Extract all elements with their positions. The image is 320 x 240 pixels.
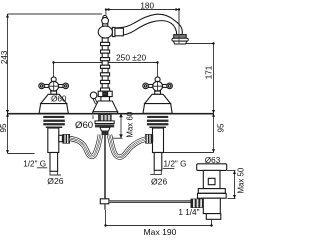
svg-text:1/2" G: 1/2" G bbox=[23, 160, 46, 169]
spout arm bbox=[115, 28, 124, 36]
svg-text:180: 180 bbox=[140, 1, 154, 10]
dimension Max50 bottom extension bbox=[228, 198, 236, 200]
dimension arrows bbox=[6, 8, 236, 227]
drain inlet nut bbox=[191, 199, 204, 208]
drain locknut 2 bbox=[198, 193, 227, 198]
right valve right knob inner bbox=[168, 85, 171, 88]
central manifold bbox=[100, 127, 110, 131]
dimension Max50 vertical line bbox=[234, 170, 236, 198]
drain neck square bbox=[208, 178, 215, 184]
left valve below-deck body bbox=[48, 128, 59, 153]
pop-up rod pin bbox=[104, 204, 105, 210]
central threaded shank bbox=[98, 115, 112, 121]
left hose bbox=[70, 135, 101, 157]
left valve left knob bbox=[39, 83, 45, 89]
column lower neck bbox=[101, 97, 110, 101]
left valve right knob bbox=[63, 83, 69, 89]
right valve handle bar bbox=[146, 85, 170, 88]
svg-text:95: 95 bbox=[216, 123, 225, 133]
pop-up rod block bbox=[100, 199, 109, 204]
right hose bbox=[110, 135, 146, 157]
column block screw bbox=[103, 92, 108, 95]
dimension texts bbox=[0, 1, 246, 237]
right valve bell bbox=[145, 94, 171, 103]
column ball bbox=[102, 17, 109, 24]
right valve side stub bbox=[149, 135, 153, 141]
column shaft segment 1 bbox=[102, 38, 108, 42]
left valve top knob bbox=[51, 77, 56, 82]
central washer 1 bbox=[95, 121, 114, 124]
svg-text:Ø60: Ø60 bbox=[75, 120, 93, 131]
svg-text:Max 190: Max 190 bbox=[144, 227, 177, 237]
svg-text:Ø26: Ø26 bbox=[151, 177, 167, 187]
left valve neck bbox=[51, 91, 57, 94]
dimension 171 top extension line bbox=[180, 43, 214, 45]
dimension 95 left vertical line bbox=[7, 113, 9, 153]
dimension Max50 top extension bbox=[227, 170, 236, 172]
dimension 180 line bbox=[106, 9, 179, 11]
dimension 171 vertical line bbox=[213, 44, 215, 114]
left valve skirt bbox=[39, 104, 68, 114]
right valve left knob bbox=[143, 83, 149, 89]
column cone base bbox=[93, 101, 118, 112]
column body sphere bbox=[98, 26, 112, 38]
dimension 180 right extension over spout bbox=[178, 10, 180, 44]
right valve skirt bbox=[143, 104, 172, 114]
right valve top knob bbox=[155, 77, 160, 82]
left valve bell bbox=[41, 94, 67, 103]
right valve hub bbox=[153, 81, 163, 91]
dimension Max190 horizontal line bbox=[106, 225, 212, 227]
spout tube bbox=[114, 14, 182, 35]
pop-up knob bbox=[90, 92, 97, 99]
dimension 95 right vertical line bbox=[213, 113, 215, 152]
right valve hose nut bbox=[145, 134, 153, 144]
dimension 250 right drop bbox=[157, 63, 159, 79]
column base plate bbox=[93, 112, 118, 114]
spout outlet rim bbox=[172, 38, 188, 41]
drain body bbox=[203, 198, 220, 213]
svg-text:171: 171 bbox=[204, 65, 213, 79]
dimension Max190 left extension bbox=[105, 210, 107, 226]
leader line half inch G right bbox=[163, 168, 175, 170]
pop-up knob link bbox=[93, 98, 98, 104]
right valve below-deck body bbox=[153, 128, 164, 153]
column block bbox=[98, 91, 112, 96]
pop-up rod vertical bbox=[104, 135, 106, 199]
dimension Max190 right extension bbox=[211, 219, 213, 226]
right valve below-deck ridges bbox=[147, 116, 169, 128]
column finial bbox=[103, 15, 107, 17]
column neck top bbox=[103, 24, 108, 26]
left valve hub bbox=[49, 81, 59, 91]
svg-text:Max 50: Max 50 bbox=[237, 167, 246, 193]
drain neck bbox=[203, 170, 220, 188]
dimension 250 horizontal line bbox=[54, 62, 158, 64]
left valve hub cross bbox=[49, 81, 59, 91]
left valve handle bar bbox=[42, 85, 66, 88]
pop-up horizontal rod bbox=[109, 201, 191, 203]
svg-text:Ø60: Ø60 bbox=[51, 95, 67, 104]
diameter 26 bracket left bbox=[50, 172, 61, 176]
dimension 180 right extension bbox=[178, 10, 180, 45]
leader line half inch G left bbox=[37, 167, 47, 169]
left valve below-deck ridges bbox=[43, 116, 65, 128]
right valve neck bbox=[155, 91, 161, 94]
dimension 243 vertical line bbox=[7, 14, 9, 113]
central washer 2 bbox=[95, 124, 114, 127]
svg-text:Ø26: Ø26 bbox=[47, 176, 63, 186]
dimension 243 top extension line bbox=[8, 13, 103, 15]
svg-text:243: 243 bbox=[0, 50, 9, 64]
right valve right knob bbox=[167, 83, 173, 89]
left valve tailpiece bbox=[50, 153, 58, 172]
svg-text:1 1/4": 1 1/4" bbox=[178, 208, 199, 217]
dimension Max60 bottom extension bbox=[113, 137, 123, 139]
dimension 250 left drop bbox=[53, 63, 55, 78]
right valve hub cross bbox=[153, 81, 163, 91]
spout outlet collar bbox=[172, 35, 188, 44]
drain locknut 1 bbox=[198, 189, 225, 194]
drain top flange bbox=[197, 164, 227, 171]
right valve tailpiece bbox=[154, 153, 162, 171]
dimension 180 left extension bbox=[105, 10, 107, 15]
svg-text:1/2" G: 1/2" G bbox=[164, 160, 187, 169]
central manifold cap bbox=[102, 131, 109, 135]
svg-text:Ø63: Ø63 bbox=[205, 156, 221, 165]
svg-text:250 ±20: 250 ±20 bbox=[116, 53, 147, 63]
dimension Max60 vertical line bbox=[120, 113, 122, 138]
diameter 60 center tick bbox=[92, 115, 94, 119]
left valve hose nut bbox=[62, 134, 70, 144]
diameter 26 bracket right bbox=[150, 171, 161, 175]
svg-text:Max 60: Max 60 bbox=[126, 111, 135, 137]
dimension 95 right bottom extension line bbox=[162, 152, 214, 154]
spout outlet mouth bbox=[173, 41, 186, 44]
spout arm flange bbox=[112, 27, 115, 36]
left valve side stub bbox=[59, 135, 63, 141]
svg-text:95: 95 bbox=[0, 123, 8, 133]
deck line bbox=[7, 113, 214, 115]
drain tailpipe bbox=[206, 214, 221, 220]
dimension 95 left bottom extension line bbox=[8, 153, 35, 155]
